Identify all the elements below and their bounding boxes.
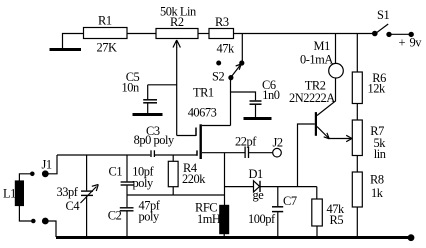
svg-text:47k: 47k bbox=[217, 41, 235, 55]
wire emitter to R7 wiper bbox=[329, 135, 352, 141]
wire S1 to +9v bbox=[389, 32, 422, 49]
ground rail (bottom) bbox=[56, 235, 414, 241]
potentiometer R2 bbox=[156, 4, 198, 135]
ground (C5) bbox=[133, 113, 163, 116]
wire main rail R3 to S1 bbox=[234, 33, 375, 35]
wire R8 to rail bbox=[356, 207, 358, 237]
svg-text:C7: C7 bbox=[283, 194, 297, 208]
capacitor C2 bbox=[108, 199, 161, 237]
svg-text:TR1: TR1 bbox=[193, 85, 214, 99]
svg-text:C1: C1 bbox=[109, 165, 123, 179]
svg-text:R3: R3 bbox=[215, 15, 229, 29]
variable capacitor C4 bbox=[57, 155, 99, 237]
switch S2 bbox=[212, 61, 244, 84]
wire TR2 base bbox=[298, 124, 315, 187]
svg-text:ge: ge bbox=[253, 188, 265, 202]
svg-text:poly: poly bbox=[133, 176, 154, 190]
resistor R3 bbox=[209, 15, 235, 55]
svg-text:1mH: 1mH bbox=[197, 212, 221, 226]
svg-text:R2: R2 bbox=[170, 15, 184, 29]
wire J1 top to gate line bbox=[45, 155, 57, 174]
wire top (gate1 line) bbox=[57, 154, 150, 156]
connector J2 bbox=[273, 136, 283, 158]
svg-text:S1: S1 bbox=[377, 8, 389, 22]
svg-text:0-1mA: 0-1mA bbox=[300, 52, 333, 66]
svg-text:+: + bbox=[399, 36, 406, 50]
svg-text:12k: 12k bbox=[368, 81, 386, 95]
resistor R8 bbox=[352, 172, 384, 207]
transistor TR2 2N2222A bbox=[289, 78, 336, 139]
wire junction to S2 bbox=[241, 34, 243, 62]
wire R7-R8 bbox=[356, 156, 358, 173]
svg-text:1k: 1k bbox=[371, 186, 384, 200]
svg-text:R1: R1 bbox=[98, 13, 112, 27]
wire S2 to drain bbox=[230, 79, 232, 126]
capacitor C6 bbox=[250, 78, 280, 117]
capacitor 22pf bbox=[225, 135, 273, 159]
wire C1/C2 junction to source line bbox=[127, 194, 225, 196]
capacitor C5 bbox=[122, 70, 177, 113]
connector J1 bbox=[31, 158, 52, 224]
svg-text:S2: S2 bbox=[212, 70, 224, 84]
inductor L1 bbox=[3, 174, 31, 221]
svg-text:10n: 10n bbox=[122, 81, 139, 95]
svg-text:M1: M1 bbox=[314, 39, 331, 53]
svg-text:2N2222A: 2N2222A bbox=[289, 91, 335, 105]
svg-text:22pf: 22pf bbox=[235, 135, 257, 149]
resistor R4 bbox=[168, 155, 206, 195]
svg-text:33pf: 33pf bbox=[57, 185, 79, 199]
resistor R1 bbox=[84, 13, 128, 54]
ground (C6) bbox=[244, 117, 272, 120]
svg-text:9v: 9v bbox=[410, 36, 423, 50]
resistor R6 bbox=[352, 71, 386, 103]
svg-text:R8: R8 bbox=[370, 173, 384, 187]
wire rail to R6 bbox=[356, 34, 358, 73]
svg-text:27K: 27K bbox=[97, 40, 117, 54]
svg-text:D1: D1 bbox=[249, 167, 263, 181]
svg-text:8p0 poly: 8p0 poly bbox=[134, 133, 175, 147]
svg-text:220k: 220k bbox=[182, 172, 206, 186]
svg-text:40673: 40673 bbox=[188, 105, 217, 119]
wire ground to R1 bbox=[63, 34, 84, 49]
svg-text:poly: poly bbox=[139, 209, 160, 223]
transistor TR1 40673 bbox=[177, 85, 231, 159]
wire R1-R2 bbox=[127, 33, 156, 35]
diode D1 bbox=[225, 167, 317, 202]
wire C6 branch bbox=[231, 92, 256, 100]
wire source down bbox=[224, 153, 226, 206]
ground (top-left) bbox=[50, 48, 82, 51]
svg-text:100pf: 100pf bbox=[248, 212, 276, 226]
switch S1 bbox=[373, 8, 392, 37]
svg-text:C4: C4 bbox=[66, 199, 80, 213]
meter M1 bbox=[300, 34, 343, 79]
capacitor C3 bbox=[134, 124, 197, 157]
svg-text:J1: J1 bbox=[42, 158, 52, 172]
wire R6-R7 bbox=[356, 104, 358, 121]
svg-text:C2: C2 bbox=[108, 209, 122, 223]
resistor R5 bbox=[312, 187, 345, 237]
svg-text:lin: lin bbox=[374, 147, 386, 161]
wire R2-R3 bbox=[198, 33, 209, 35]
svg-text:J2: J2 bbox=[273, 136, 283, 150]
wire J1 bottom to rail bbox=[45, 221, 56, 237]
inductor RFC bbox=[195, 200, 229, 237]
svg-text:L1: L1 bbox=[3, 186, 16, 200]
svg-text:1n0: 1n0 bbox=[262, 88, 279, 102]
capacitor C7 bbox=[248, 187, 297, 237]
potentiometer R7 bbox=[352, 120, 386, 161]
svg-text:R5: R5 bbox=[330, 213, 344, 227]
capacitor C1 bbox=[109, 155, 155, 207]
